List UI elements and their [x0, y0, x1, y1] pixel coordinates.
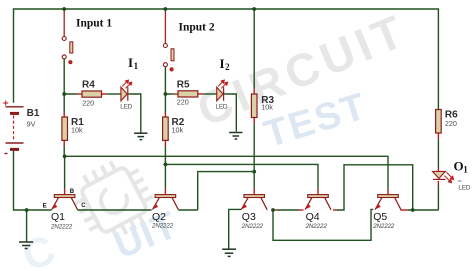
svg-text:B: B	[70, 189, 75, 195]
svg-text:Q4: Q4	[306, 211, 320, 223]
svg-text:2: 2	[225, 62, 230, 72]
svg-text:I: I	[220, 56, 225, 71]
svg-text:I: I	[128, 55, 133, 70]
svg-text:220: 220	[445, 119, 457, 128]
svg-text:1: 1	[134, 61, 139, 71]
svg-text:2N2222: 2N2222	[305, 223, 328, 230]
svg-text:9V: 9V	[27, 119, 36, 128]
svg-text:2N2222: 2N2222	[241, 223, 264, 230]
svg-text:Input 1: Input 1	[76, 18, 112, 30]
svg-text:LED: LED	[216, 103, 228, 110]
svg-text:Q2: Q2	[152, 211, 166, 223]
svg-text:1: 1	[463, 164, 468, 174]
svg-text:10k: 10k	[172, 126, 184, 135]
svg-text:C: C	[81, 203, 86, 209]
svg-text:LED: LED	[458, 185, 470, 192]
svg-text:2N2222: 2N2222	[151, 223, 174, 230]
svg-text:2N2222: 2N2222	[50, 224, 73, 231]
svg-text:Q5: Q5	[373, 211, 387, 223]
svg-text:O: O	[454, 158, 464, 173]
svg-text:Input 2: Input 2	[179, 22, 215, 34]
svg-text:Q1: Q1	[51, 211, 65, 223]
svg-text:R5: R5	[177, 79, 190, 90]
svg-text:R4: R4	[82, 79, 95, 90]
svg-text:10k: 10k	[261, 103, 273, 112]
svg-text:E: E	[43, 204, 47, 210]
svg-text:10k: 10k	[71, 126, 83, 135]
svg-text:LED: LED	[120, 103, 132, 110]
svg-text:B1: B1	[27, 108, 40, 119]
svg-text:Q3: Q3	[242, 211, 256, 223]
svg-text:220: 220	[82, 98, 94, 107]
svg-text:220: 220	[177, 97, 189, 106]
svg-text:2N2222: 2N2222	[372, 223, 395, 230]
